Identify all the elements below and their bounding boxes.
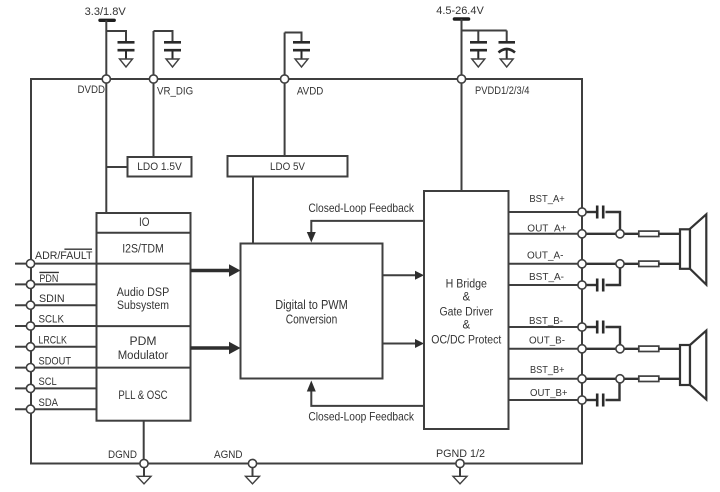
- svg-text:BST_A-: BST_A-: [529, 271, 564, 283]
- svg-text:&: &: [462, 291, 470, 303]
- block PDM Modulator: [97, 367, 191, 369]
- wire OUT_B- external: [582, 348, 639, 350]
- svg-text:Closed-Loop Feedback: Closed-Loop Feedback: [308, 409, 414, 423]
- bus arrow DSP to PWM: [191, 269, 231, 272]
- capacitor CA-: [596, 279, 599, 292]
- svg-text:Conversion: Conversion: [286, 311, 338, 326]
- svg-text:OUT_B+: OUT_B+: [530, 387, 568, 399]
- svg-text:PGND 1/2: PGND 1/2: [436, 448, 485, 460]
- pin BST_A-: [578, 281, 586, 289]
- pin PGND 1/2: [456, 459, 464, 467]
- wire feedback bottom: [311, 391, 424, 406]
- pin BST_B-: [578, 323, 586, 331]
- pin SDOUT: [15, 367, 97, 369]
- wire feedback top: [311, 221, 424, 233]
- bootstrap capacitor B+ wiring: [582, 399, 597, 401]
- node VR_DIG: [149, 75, 157, 83]
- wire BST_B-: [509, 326, 583, 328]
- bootstrap capacitor A- wiring: [582, 284, 597, 286]
- supply bar 3.3/1.8V: [100, 19, 114, 22]
- node DVDD: [102, 75, 110, 83]
- node OUT_A-: [616, 260, 624, 268]
- bus arrow PDM to PWM: [191, 346, 231, 349]
- wire DVDD supply drop: [105, 20, 107, 79]
- svg-text:BST_B-: BST_B-: [529, 315, 563, 327]
- svg-text:PDM: PDM: [130, 336, 157, 348]
- svg-text:OUT_A-: OUT_A-: [527, 250, 564, 262]
- wire OUT_B-: [509, 348, 583, 350]
- svg-text:Subsystem: Subsystem: [117, 300, 169, 312]
- pin SCLK: [15, 325, 97, 327]
- block Digital to PWM Conversion: [241, 244, 383, 379]
- speaker B: [680, 345, 690, 385]
- svg-text:VR_DIG: VR_DIG: [157, 86, 193, 98]
- speaker A: [680, 229, 690, 268]
- svg-text:DGND: DGND: [108, 449, 137, 461]
- ground: [166, 59, 179, 67]
- svg-text:LDO 5V: LDO 5V: [270, 161, 306, 173]
- block stack outline: [97, 213, 191, 421]
- wire DVDD to LDO 1.5V: [106, 166, 127, 168]
- wire VR_DIG drop to LDO 1.5V: [153, 31, 155, 157]
- wire OUT_B+: [509, 399, 583, 401]
- svg-text:SCLK: SCLK: [39, 314, 65, 326]
- pin LRCLK: [15, 346, 97, 348]
- supply bar 4.5-26.4V: [455, 17, 469, 21]
- pin SDIN: [15, 304, 97, 306]
- svg-text:OUT_B-: OUT_B-: [529, 335, 565, 347]
- wire BST_A-: [509, 284, 583, 286]
- node OUT_A+: [616, 230, 624, 238]
- block IO: [97, 232, 191, 234]
- svg-text:&: &: [462, 320, 470, 332]
- svg-text:SCL: SCL: [39, 376, 57, 388]
- pin ADR/FAULT: [15, 263, 97, 265]
- svg-text:Modulator: Modulator: [118, 350, 169, 362]
- regulator LDO 1.5V: [128, 157, 192, 177]
- pin SCL: [15, 387, 97, 389]
- wire PLL to DGND: [143, 421, 145, 464]
- pin PDN: [15, 283, 97, 285]
- capacitor C3: [293, 42, 310, 59]
- node AVDD: [281, 75, 289, 83]
- inductor LB-: [639, 346, 659, 351]
- svg-text:LDO 1.5V: LDO 1.5V: [137, 161, 182, 173]
- inductor LA+: [639, 231, 659, 236]
- capacitor CA+: [596, 206, 599, 219]
- ground DGND: [143, 468, 145, 477]
- pin BST_A+: [578, 208, 586, 216]
- svg-text:Digital to PWM: Digital to PWM: [275, 297, 348, 312]
- bootstrap capacitor B- wiring: [582, 326, 597, 328]
- pin OUT_B-: [578, 345, 586, 353]
- svg-text:BST_B+: BST_B+: [530, 364, 565, 376]
- wire C4 C5 branch: [462, 31, 507, 43]
- wire BST_A+: [509, 211, 583, 213]
- svg-text:SDA: SDA: [39, 397, 59, 409]
- wire OUT_A+: [509, 233, 583, 235]
- svg-text:OUT_A+: OUT_A+: [527, 222, 566, 234]
- ground: [500, 59, 513, 67]
- inductor LA-: [639, 261, 659, 266]
- wire LDO 5V to PWM block: [252, 177, 254, 244]
- wire OUT_A- external: [582, 263, 639, 265]
- capacitor C4: [470, 42, 487, 59]
- wire BST_B+ external: [582, 378, 639, 380]
- block H Bridge Gate Driver OC/DC Protect: [424, 191, 509, 429]
- ground AGND: [252, 468, 254, 477]
- svg-text:BST_A+: BST_A+: [529, 193, 564, 205]
- svg-text:AGND: AGND: [214, 449, 243, 461]
- svg-text:DVDD: DVDD: [78, 84, 106, 96]
- svg-text:PVDD1/2/3/4: PVDD1/2/3/4: [475, 85, 530, 97]
- wire PVDD to H bridge: [461, 79, 463, 191]
- capacitor C2: [164, 42, 181, 59]
- wire AVDD drop to LDO 5V: [284, 33, 286, 157]
- svg-text:AVDD: AVDD: [297, 86, 323, 98]
- inductor LB+: [639, 376, 659, 381]
- svg-text:PDN: PDN: [39, 273, 58, 285]
- wire C3 branch: [285, 33, 302, 43]
- wire DVDD to IO: [105, 79, 107, 213]
- svg-text:ADR/FAULT: ADR/FAULT: [35, 250, 93, 262]
- svg-text:Gate Driver: Gate Driver: [440, 306, 494, 318]
- pin SDA: [15, 408, 97, 410]
- bootstrap capacitor A+ wiring: [582, 211, 597, 213]
- wire C2 branch: [154, 31, 173, 42]
- arrow PWM to H bridge lower: [383, 343, 417, 345]
- pin OUT_A-: [578, 260, 586, 268]
- svg-text:IO: IO: [139, 217, 150, 229]
- ground PGND: [459, 468, 461, 477]
- svg-text:SDIN: SDIN: [39, 293, 65, 305]
- svg-text:4.5-26.4V: 4.5-26.4V: [436, 5, 484, 17]
- svg-text:Audio DSP: Audio DSP: [117, 287, 170, 299]
- wire BST_B+: [509, 378, 583, 380]
- chip outline: [31, 79, 582, 464]
- wire OUT_A+ external: [582, 233, 639, 235]
- block Audio DSP Subsystem: [97, 325, 191, 327]
- capacitor C5 polarized: [499, 42, 516, 59]
- wire OUT_A-: [509, 263, 583, 265]
- svg-text:3.3/1.8V: 3.3/1.8V: [85, 6, 127, 18]
- svg-text:Closed-Loop Feedback: Closed-Loop Feedback: [308, 201, 414, 215]
- wire C1 branch: [106, 31, 126, 42]
- ground: [295, 59, 308, 67]
- svg-text:SDOUT: SDOUT: [39, 355, 72, 367]
- wire PVDD supply drop: [461, 19, 463, 79]
- ground: [472, 59, 485, 67]
- node BST_B+: [616, 375, 624, 383]
- pin DGND: [140, 459, 148, 467]
- capacitor CB+: [596, 394, 599, 407]
- ground: [120, 59, 133, 67]
- node OUT_B-: [616, 345, 624, 353]
- block I2S/TDM: [97, 263, 191, 265]
- node PVDD: [457, 75, 465, 83]
- regulator LDO 5V: [228, 156, 348, 177]
- svg-text:H Bridge: H Bridge: [446, 279, 487, 291]
- capacitor CB-: [596, 321, 599, 334]
- pin BST_B+: [578, 375, 586, 383]
- svg-text:LRCLK: LRCLK: [39, 335, 68, 347]
- svg-text:OC/DC Protect: OC/DC Protect: [431, 334, 502, 346]
- capacitor C1: [118, 42, 135, 59]
- svg-text:I2S/TDM: I2S/TDM: [122, 244, 164, 256]
- svg-text:PLL & OSC: PLL & OSC: [118, 390, 167, 402]
- arrow PWM to H bridge upper: [383, 274, 417, 276]
- pin OUT_A+: [578, 230, 586, 238]
- pin AGND: [248, 459, 256, 467]
- pin OUT_B+: [578, 396, 586, 404]
